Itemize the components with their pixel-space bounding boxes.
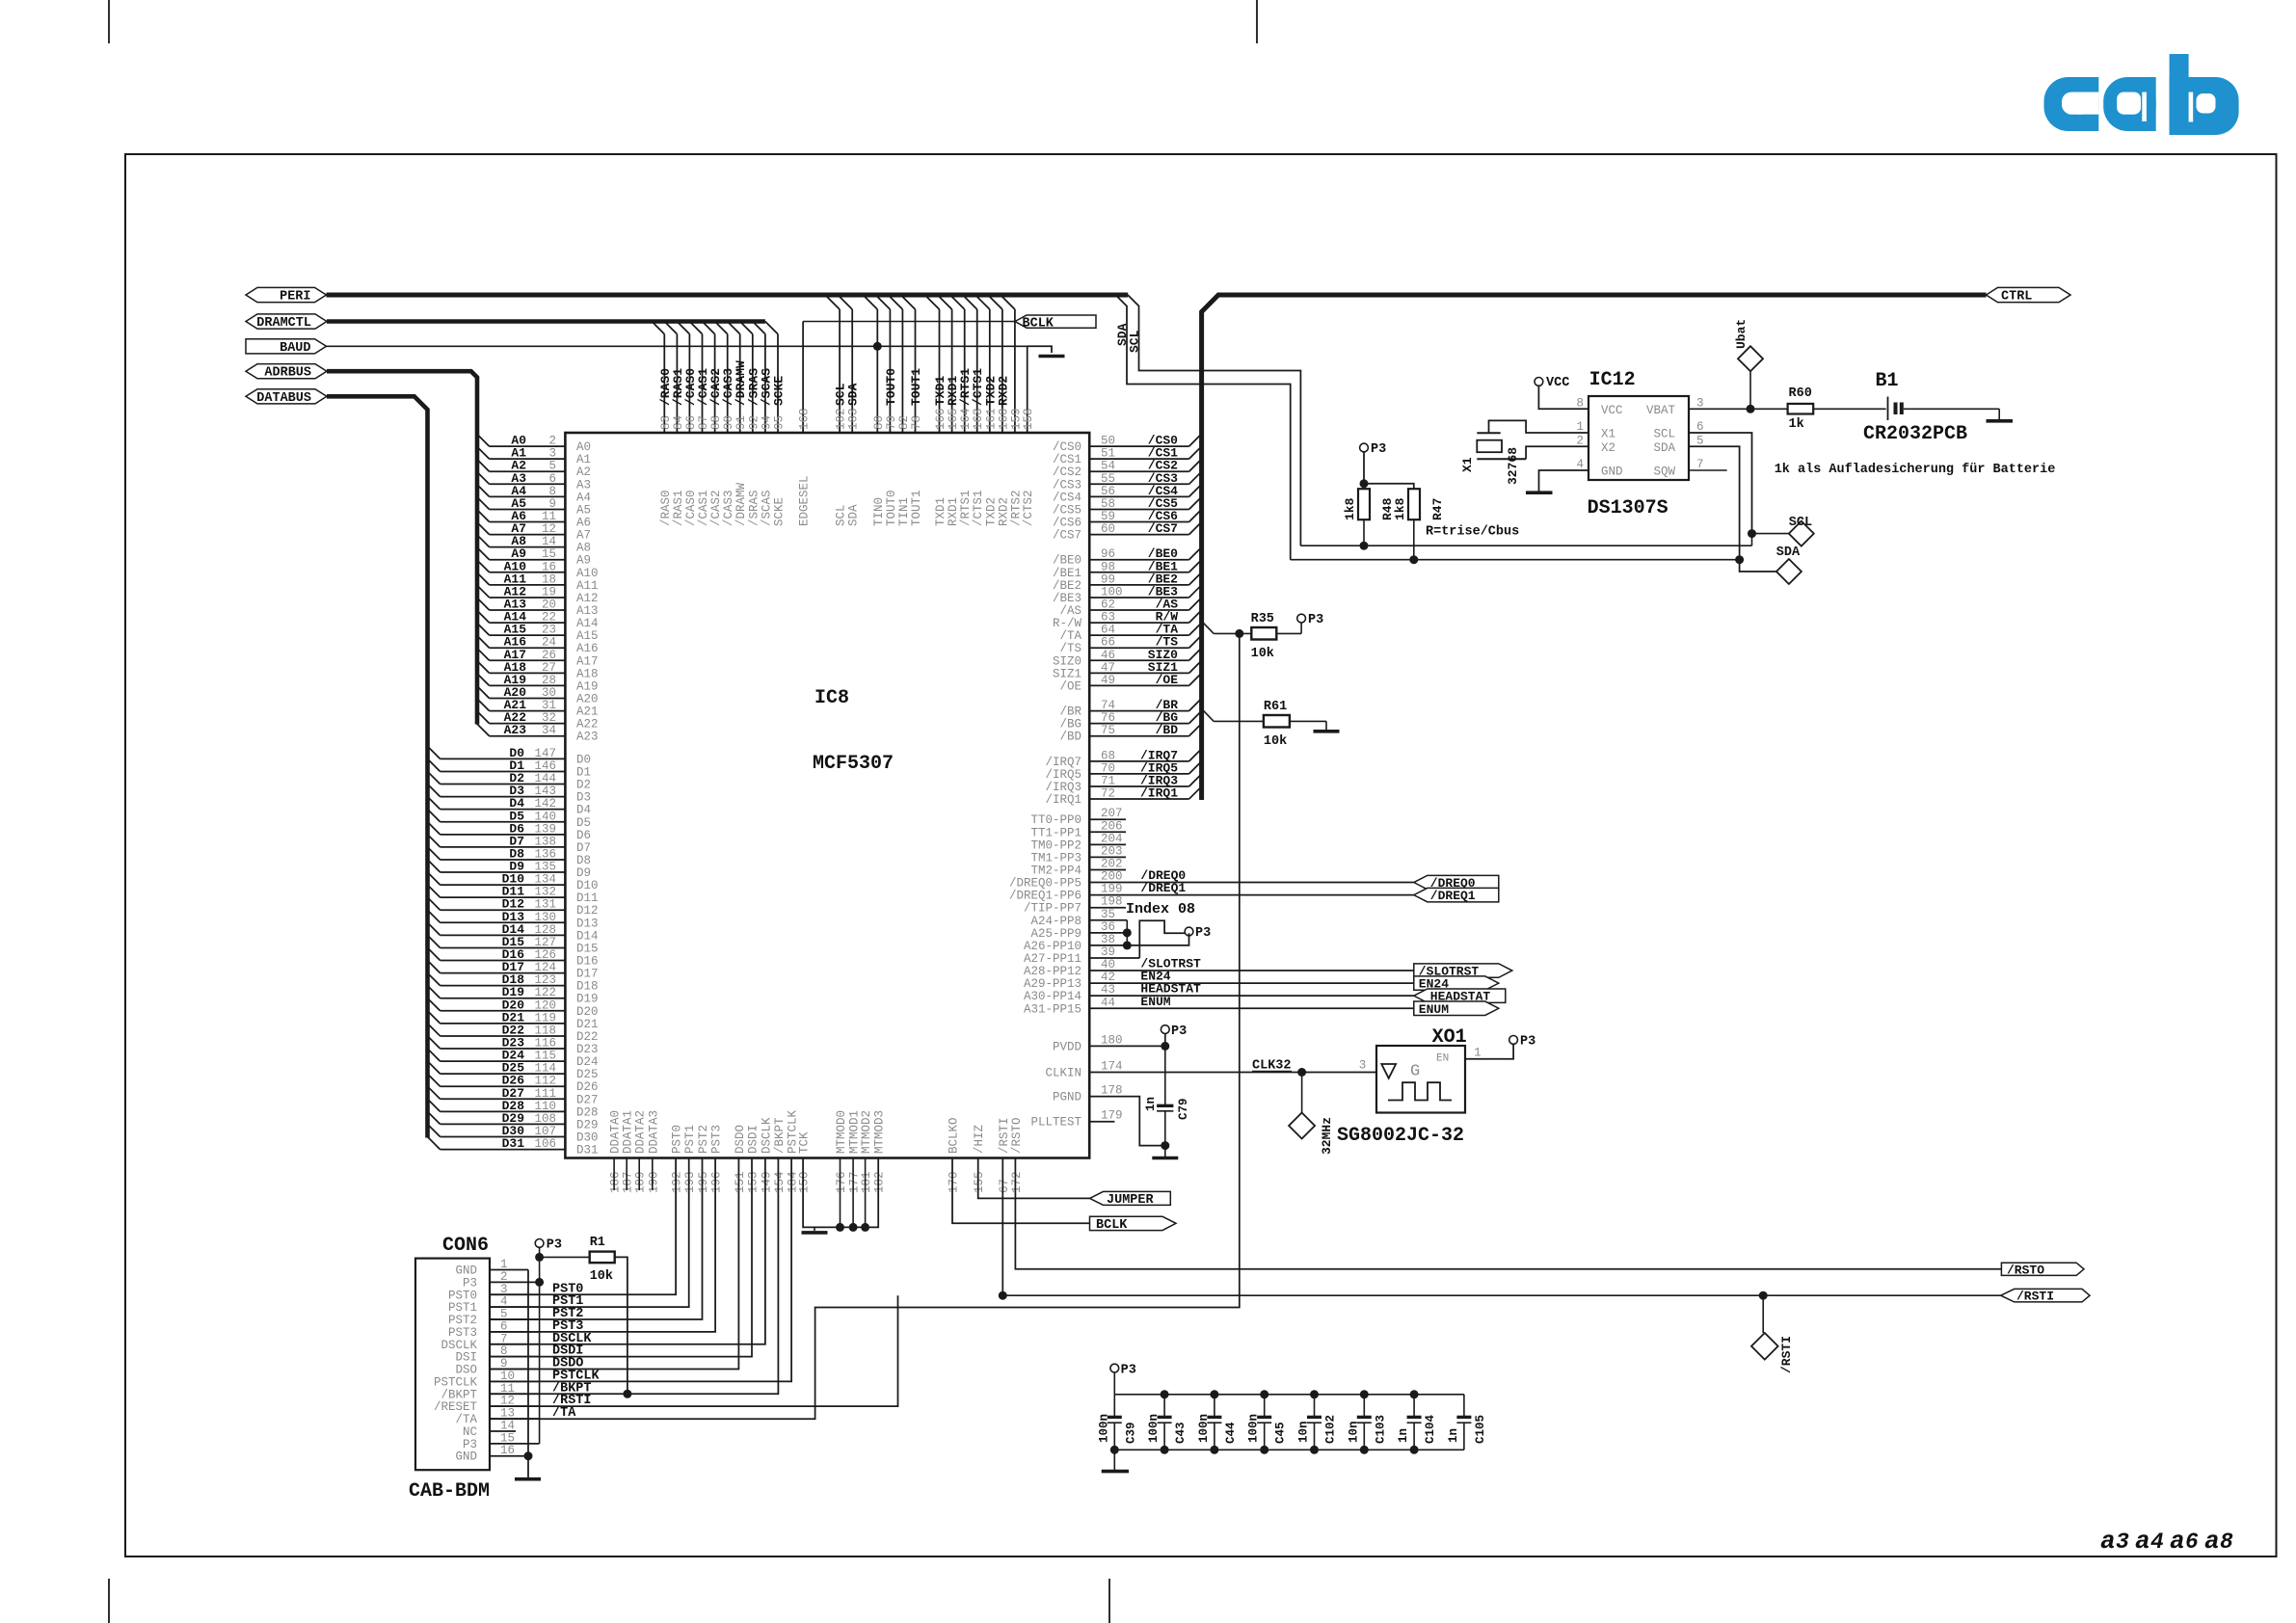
svg-text:D29: D29 (576, 1118, 599, 1131)
net SCL drop from PERI (1128, 295, 1300, 545)
svg-text:/CS2: /CS2 (1053, 466, 1081, 479)
svg-text:BAUD: BAUD (280, 341, 310, 356)
svg-text:PST1: PST1 (683, 1125, 697, 1154)
svg-text:TOUT0: TOUT0 (884, 368, 898, 406)
resistor R60 (1788, 404, 1814, 414)
IC IC12 DS1307S body (1589, 396, 1689, 480)
svg-text:68: 68 (1101, 749, 1115, 762)
svg-text:110: 110 (534, 1100, 556, 1113)
net ENUM wire (1186, 1007, 1414, 1009)
pin D12 stub + net label D12 + pin 131 (428, 897, 599, 918)
svg-text:91: 91 (734, 415, 748, 430)
pin A4 stub + net label A4 + pin 8 (477, 484, 591, 505)
svg-text:67: 67 (998, 1179, 1011, 1193)
svg-text:D12: D12 (576, 904, 599, 918)
svg-text:/RSTI: /RSTI (998, 1117, 1011, 1154)
flag /SLOTRST (1414, 964, 1512, 979)
svg-text:189: 189 (634, 1171, 648, 1193)
svg-text:BCLKO: BCLKO (948, 1117, 961, 1154)
pin MTMOD stub (865, 1158, 867, 1228)
svg-text:1: 1 (1576, 420, 1584, 434)
svg-text:a: a (2100, 1527, 2116, 1556)
svg-text:/OE: /OE (1156, 673, 1179, 687)
svg-text:TOUT0: TOUT0 (885, 490, 898, 526)
pin /IRQ5 stub + hatch to CTRL bus + pin 70 (1045, 760, 1201, 782)
svg-text:196: 196 (710, 1171, 724, 1193)
svg-text:32768: 32768 (1506, 447, 1520, 485)
svg-text:/BR: /BR (1059, 705, 1081, 719)
terminal P3 (cap bank) (1110, 1364, 1119, 1372)
svg-text:16: 16 (500, 1444, 515, 1457)
svg-text:35: 35 (1101, 908, 1115, 921)
pin /BR stub + hatch to CTRL bus + pin 74 (1059, 698, 1201, 719)
svg-text:/CS7: /CS7 (1148, 521, 1178, 536)
net BDM wire (490, 1158, 752, 1357)
svg-text:12: 12 (542, 522, 556, 536)
svg-text:X2: X2 (1601, 441, 1615, 455)
svg-text:122: 122 (534, 986, 556, 999)
svg-text:C45: C45 (1274, 1422, 1288, 1444)
pin /IRQ1 stub + hatch to CTRL bus + pin 72 (1045, 786, 1201, 808)
svg-text:P3: P3 (1171, 1024, 1187, 1039)
svg-text:/RAS0: /RAS0 (659, 490, 673, 526)
pin D25 stub + net label D25 + pin 114 (428, 1061, 599, 1082)
pin D28 stub + net label D28 + pin 110 (428, 1099, 599, 1120)
pin 40 A28-PP12 stub (1024, 958, 1186, 978)
op IC8 MCF5307 body (565, 433, 1089, 1158)
pin D13 stub + net label D13 + pin 130 (428, 910, 599, 931)
svg-text:PST3: PST3 (710, 1125, 724, 1154)
CON6 pin 4 PST1 (448, 1294, 583, 1315)
net /DREQ0 wire (1186, 882, 1414, 884)
flag 32MHz diamond (1301, 1073, 1303, 1113)
pin D18 stub + net label D18 + pin 123 (428, 972, 599, 994)
pin A16 stub + net label A16 + pin 24 (477, 635, 599, 656)
CON6 pin 2 P3 (463, 1270, 540, 1290)
svg-text:A9: A9 (576, 554, 591, 568)
svg-text:19: 19 (542, 585, 556, 599)
svg-text:A4: A4 (576, 491, 591, 504)
svg-text:SCL: SCL (835, 504, 848, 526)
svg-text:A24-PP8: A24-PP8 (1030, 915, 1081, 928)
pin 87 /CAS1 drop from DRAMCTL (689, 322, 710, 527)
svg-text:111: 111 (534, 1087, 556, 1101)
svg-text:120: 120 (534, 998, 556, 1012)
bus arrow ADRBUS (246, 364, 327, 379)
svg-text:82: 82 (897, 415, 911, 430)
wire VCC to pin8 (1538, 386, 1589, 409)
ground (C79) (1164, 1146, 1166, 1158)
pin D9 stub + net label D9 + pin 135 (428, 860, 592, 881)
svg-text:/CAS2: /CAS2 (709, 490, 723, 526)
svg-text:A2: A2 (576, 466, 591, 479)
pin 158 /CTS2 drop from BAUD (1027, 346, 1028, 433)
net SCL horizontal to DS1307 (1300, 545, 1751, 546)
svg-text:X1: X1 (1601, 428, 1615, 441)
resistor R47 (1408, 489, 1420, 519)
svg-text:10k: 10k (1251, 647, 1274, 661)
svg-text:128: 128 (534, 923, 556, 937)
pin D22 stub + net label D22 + pin 118 (428, 1023, 599, 1044)
svg-text:BCLK: BCLK (1023, 317, 1055, 332)
pin A1 stub + net label A1 + pin 3 (477, 446, 591, 467)
svg-text:R61: R61 (1264, 700, 1287, 714)
pin /AS stub + hatch to CTRL bus + pin 62 (1059, 598, 1201, 619)
svg-text:84: 84 (672, 415, 685, 430)
svg-text:130: 130 (534, 911, 556, 924)
pin A9 stub + net label A9 + pin 15 (477, 546, 591, 568)
net /RSTO wire (1015, 1158, 2001, 1269)
svg-text:SCKE: SCKE (773, 497, 787, 526)
ground (battery) (1987, 419, 2014, 423)
svg-text:59: 59 (1101, 510, 1115, 523)
svg-text:1k: 1k (1789, 417, 1804, 432)
svg-text:/RAS1: /RAS1 (672, 490, 685, 526)
pin 38 A26-PP10 stub (1024, 933, 1127, 953)
svg-text:R47: R47 (1430, 498, 1445, 520)
svg-text:47: 47 (1101, 661, 1115, 675)
svg-text:A19: A19 (576, 679, 599, 693)
pin A12 stub + net label A12 + pin 19 (477, 584, 599, 605)
svg-text:A3: A3 (576, 478, 591, 492)
capacitor C43 100n (1147, 1390, 1188, 1454)
svg-text:140: 140 (534, 810, 556, 823)
pin 168 EDGESEL drop from BCLK (802, 322, 804, 434)
svg-text:a: a (2135, 1527, 2150, 1556)
ground (R61) (1314, 730, 1340, 733)
svg-text:D11: D11 (576, 891, 599, 905)
pin /TS stub + hatch to CTRL bus + pin 66 (1059, 635, 1201, 656)
CON6 pin 1 GND (455, 1258, 528, 1278)
svg-text:DSCLK: DSCLK (760, 1117, 773, 1154)
pin A0 stub + net label A0 + pin 2 (477, 434, 591, 455)
pin 207 TT0-PP0 stub (1030, 807, 1126, 827)
svg-text:206: 206 (1101, 819, 1123, 833)
svg-text:R-/W: R-/W (1053, 617, 1082, 630)
terminal VCC (1535, 378, 1543, 386)
svg-text:86: 86 (684, 415, 698, 430)
svg-text:/RSTI: /RSTI (2016, 1290, 2054, 1304)
svg-text:VBAT: VBAT (1646, 404, 1676, 417)
svg-text:TM0-PP2: TM0-PP2 (1030, 838, 1081, 852)
svg-text:100n: 100n (1197, 1414, 1211, 1443)
svg-text:51: 51 (1101, 447, 1115, 461)
svg-text:A25-PP9: A25-PP9 (1030, 927, 1081, 941)
svg-text:D23: D23 (576, 1043, 599, 1056)
pin 174 CLKIN wire (1089, 1072, 1376, 1074)
svg-text:153: 153 (747, 1171, 761, 1193)
pin SIZ0 stub + hatch to CTRL bus + pin 46 (1053, 648, 1202, 669)
pin 161 TXD2 drop from PERI (975, 295, 999, 526)
svg-text:/IRQ1: /IRQ1 (1140, 786, 1178, 801)
pin D17 stub + net label D17 + pin 124 (428, 960, 599, 981)
svg-text:90: 90 (722, 415, 735, 430)
svg-text:/CS4: /CS4 (1053, 491, 1081, 504)
svg-text:63: 63 (1101, 611, 1115, 625)
bottom fold tick left (108, 1579, 110, 1623)
svg-text:P3: P3 (1371, 442, 1386, 457)
svg-text:1: 1 (1474, 1047, 1482, 1060)
pin 198 /TIP-PP7 stub (1024, 895, 1126, 916)
svg-text:A20: A20 (576, 693, 599, 706)
pin D19 stub + net label D19 + pin 122 (428, 985, 599, 1006)
resistor R35 (1251, 627, 1276, 640)
svg-text:D6: D6 (576, 829, 591, 842)
svg-text:R=trise/Cbus: R=trise/Cbus (1426, 525, 1519, 540)
svg-text:/CAS3: /CAS3 (722, 490, 735, 526)
svg-text:/CS5: /CS5 (1053, 503, 1081, 517)
svg-text:/DRAMW: /DRAMW (734, 482, 748, 526)
svg-text:8: 8 (1576, 396, 1584, 410)
svg-text:76: 76 (1101, 711, 1115, 725)
pin /CS0 stub + hatch to CTRL bus + pin 50 (1053, 434, 1202, 455)
flag /DREQ0 (1414, 875, 1499, 891)
XO1 symbols (1381, 1064, 1396, 1078)
resistor R61 (1264, 715, 1290, 728)
svg-text:/TIP-PP7: /TIP-PP7 (1024, 902, 1081, 916)
oscillator XO1 body (1376, 1046, 1465, 1113)
svg-text:C105: C105 (1474, 1415, 1487, 1444)
svg-text:D5: D5 (576, 816, 591, 830)
svg-text:MTMOD2: MTMOD2 (860, 1110, 873, 1154)
svg-text:96: 96 (1101, 547, 1115, 561)
svg-text:164: 164 (959, 408, 973, 430)
svg-text:79: 79 (885, 415, 898, 430)
capacitor C79 (1164, 1046, 1166, 1105)
svg-text:D31: D31 (576, 1144, 599, 1157)
net /SLOTRST wire (1186, 970, 1414, 971)
svg-text:TT1-PP1: TT1-PP1 (1030, 826, 1081, 839)
svg-text:1n: 1n (1397, 1428, 1410, 1443)
pin A20 stub + net label A20 + pin 30 (477, 685, 599, 706)
svg-text:124: 124 (534, 961, 556, 974)
svg-text:99: 99 (1101, 572, 1115, 586)
svg-text:A22: A22 (576, 718, 599, 732)
wire R60 to battery (1813, 408, 1886, 410)
svg-text:71: 71 (1101, 774, 1115, 787)
svg-text:23: 23 (542, 624, 556, 637)
svg-text:/BE1: /BE1 (1053, 567, 1081, 580)
svg-text:72: 72 (1101, 787, 1115, 801)
svg-text:187: 187 (622, 1171, 635, 1193)
pin D21 stub + net label D21 + pin 119 (428, 1010, 599, 1031)
svg-text:XO1: XO1 (1432, 1026, 1467, 1049)
svg-text:118: 118 (534, 1024, 556, 1037)
svg-text:PERI: PERI (280, 290, 310, 305)
svg-text:2: 2 (1576, 434, 1584, 447)
svg-text:/CS3: /CS3 (1053, 478, 1081, 492)
pin 179 PLLTEST stub (1089, 1121, 1114, 1123)
svg-text:10k: 10k (590, 1269, 613, 1284)
svg-text:55: 55 (1101, 472, 1115, 486)
svg-text:135: 135 (534, 861, 556, 874)
svg-text:A11: A11 (576, 579, 599, 593)
net PST1 wire (490, 1158, 689, 1308)
svg-text:D30: D30 (576, 1131, 599, 1145)
svg-text:139: 139 (534, 822, 556, 836)
svg-text:146: 146 (534, 759, 556, 773)
resistor R48 (1358, 489, 1370, 519)
pin DDATA stub (613, 1158, 615, 1191)
svg-text:P3: P3 (1308, 613, 1323, 627)
svg-text:176: 176 (835, 1171, 848, 1193)
svg-text:100n: 100n (1247, 1414, 1261, 1443)
svg-text:/CAS1: /CAS1 (697, 490, 710, 526)
svg-text:C104: C104 (1424, 1414, 1437, 1444)
svg-text:A26-PP10: A26-PP10 (1024, 940, 1081, 953)
pin D27 stub + net label D27 + pin 111 (428, 1086, 599, 1107)
svg-text:A1: A1 (576, 453, 591, 466)
svg-text:TXD1: TXD1 (934, 497, 948, 526)
pin 178 PGND wire (1089, 1097, 1165, 1146)
pin DDATA stub (626, 1158, 627, 1191)
svg-text:D19: D19 (576, 993, 599, 1006)
bus arrow PERI (246, 287, 327, 302)
svg-text:154: 154 (773, 1171, 787, 1193)
pin D11 stub + net label D11 + pin 132 (428, 885, 599, 906)
svg-text:1n: 1n (1144, 1097, 1158, 1111)
svg-text:SCL: SCL (1128, 330, 1142, 353)
pin D3 stub + net label D3 + pin 143 (428, 784, 592, 805)
pin A10 stub + net label A10 + pin 16 (477, 559, 599, 580)
svg-text:32: 32 (542, 711, 556, 725)
svg-text:R60: R60 (1789, 386, 1812, 401)
wire P3 to R48/R47 (1364, 452, 1414, 489)
svg-text:163: 163 (972, 408, 985, 430)
svg-text:100: 100 (1101, 585, 1123, 599)
pin A15 stub + net label A15 + pin 23 (477, 623, 599, 644)
pin 203 TM1-PP3 stub (1030, 844, 1126, 865)
svg-text:155: 155 (973, 1171, 986, 1193)
wire /TA to R35 (1202, 621, 1215, 633)
svg-text:88: 88 (709, 415, 723, 430)
svg-text:75: 75 (1101, 724, 1115, 737)
svg-text:A15: A15 (576, 629, 599, 643)
wire pin1 X1 to crystal (1489, 420, 1589, 433)
svg-text:TM2-PP4: TM2-PP4 (1030, 864, 1081, 877)
svg-text:D7: D7 (576, 841, 591, 855)
svg-text:/TA: /TA (1059, 629, 1081, 643)
wire pin5 SDA to diamond (1689, 446, 1776, 572)
pin D16 stub + net label D16 + pin 126 (428, 947, 599, 969)
bus arrow BAUD (246, 339, 327, 354)
svg-text:ADRBUS: ADRBUS (264, 366, 311, 381)
flag /RSTI diamond (1762, 1295, 1764, 1333)
svg-text:/IRQ5: /IRQ5 (1045, 768, 1081, 782)
pin /BE2 stub + hatch to CTRL bus + pin 99 (1053, 572, 1202, 593)
svg-text:A18: A18 (576, 667, 599, 680)
svg-text:20: 20 (542, 599, 556, 612)
svg-text:R35: R35 (1251, 612, 1274, 626)
svg-text:D16: D16 (576, 955, 599, 969)
svg-text:/CS0: /CS0 (1053, 440, 1081, 454)
svg-text:D27: D27 (576, 1093, 599, 1106)
svg-text:107: 107 (534, 1125, 556, 1138)
flag SDA diamond (1776, 559, 1802, 584)
svg-text:TIN1: TIN1 (897, 497, 911, 526)
pin 202 TM2-PP4 stub (1030, 857, 1126, 877)
bus DRAMCTL thick wire (327, 319, 765, 324)
svg-text:/AS: /AS (1059, 604, 1081, 618)
svg-text:C39: C39 (1124, 1422, 1137, 1444)
pin D7 stub + net label D7 + pin 138 (428, 834, 592, 855)
pin 165 RXD1 drop from PERI (938, 295, 961, 526)
svg-text:SDA: SDA (1776, 545, 1801, 560)
svg-text:80: 80 (872, 415, 886, 430)
bus arrow DATABUS (246, 389, 327, 404)
svg-text:P3: P3 (1195, 926, 1211, 941)
wire R1 to /BKPT (615, 1257, 627, 1394)
net /DREQ1 wire (1186, 894, 1414, 896)
pin 78 TOUT1 drop (901, 295, 924, 526)
svg-text:D4: D4 (576, 804, 591, 817)
flag ENUM (1414, 1001, 1499, 1017)
pin /BG stub + hatch to CTRL bus + pin 76 (1059, 710, 1201, 732)
svg-text:26: 26 (542, 649, 556, 662)
svg-text:CTRL: CTRL (2001, 290, 2032, 305)
terminal P3 (PVDD) (1164, 1034, 1166, 1047)
CON6 pin 14 NC (463, 1419, 516, 1439)
pin 204 TM0-PP2 stub (1030, 832, 1126, 852)
svg-text:114: 114 (534, 1062, 556, 1076)
svg-text:RXD2: RXD2 (996, 376, 1010, 406)
svg-text:2: 2 (548, 435, 556, 448)
svg-text:C44: C44 (1224, 1422, 1238, 1444)
svg-text:P3: P3 (1520, 1035, 1535, 1050)
pin A21 stub + net label A21 + pin 31 (477, 698, 599, 719)
svg-text:126: 126 (534, 948, 556, 962)
svg-text:D10: D10 (576, 879, 599, 892)
pin 199 /DREQ1-PP6 stub (1009, 883, 1186, 903)
top fold tick left (108, 0, 110, 43)
pin 92 /SRAS drop from DRAMCTL (740, 322, 761, 527)
CON6 pin 12 /RESET (434, 1394, 592, 1414)
pin 86 /CAS0 drop from DRAMCTL (677, 322, 698, 527)
svg-text:IC12: IC12 (1589, 369, 1636, 391)
pin 39 A27-PP11 stub (1024, 945, 1139, 966)
svg-text:43: 43 (1101, 983, 1115, 997)
svg-text:92: 92 (747, 415, 761, 430)
svg-text:GND: GND (1601, 466, 1623, 479)
wire R47 to SDA (1413, 519, 1415, 560)
svg-text:DATABUS: DATABUS (256, 391, 311, 406)
svg-text:138: 138 (534, 835, 556, 848)
svg-text:SDA: SDA (847, 504, 861, 526)
svg-text:A28-PP12: A28-PP12 (1024, 965, 1081, 978)
svg-text:PLLTEST: PLLTEST (1030, 1116, 1081, 1130)
battery B1 CR2032PCB (1887, 397, 1889, 421)
flag SCL diamond (1789, 521, 1814, 546)
svg-text:165: 165 (947, 408, 960, 430)
svg-text:87: 87 (697, 415, 710, 430)
bus arrow BCLK (1015, 315, 1096, 328)
svg-text:BCLK: BCLK (1096, 1218, 1128, 1233)
pin 200 /DREQ0-PP5 stub (1009, 870, 1186, 891)
svg-text:D9: D9 (576, 866, 591, 880)
CON6 pin 10 PSTCLK (434, 1369, 601, 1389)
ground (cap bank) (1113, 1450, 1115, 1470)
svg-text:161: 161 (984, 408, 998, 430)
pin A22 stub + net label A22 + pin 32 (477, 710, 599, 732)
capacitor C102 10n (1297, 1390, 1338, 1454)
svg-text:MCF5307: MCF5307 (813, 753, 894, 775)
svg-text:A14: A14 (576, 617, 599, 630)
svg-text:30: 30 (542, 686, 556, 700)
svg-text:A0: A0 (576, 440, 591, 454)
pin 164 /RTS1 drop from PERI (950, 295, 974, 526)
svg-text:74: 74 (1101, 699, 1115, 712)
svg-text:170: 170 (948, 1171, 961, 1193)
